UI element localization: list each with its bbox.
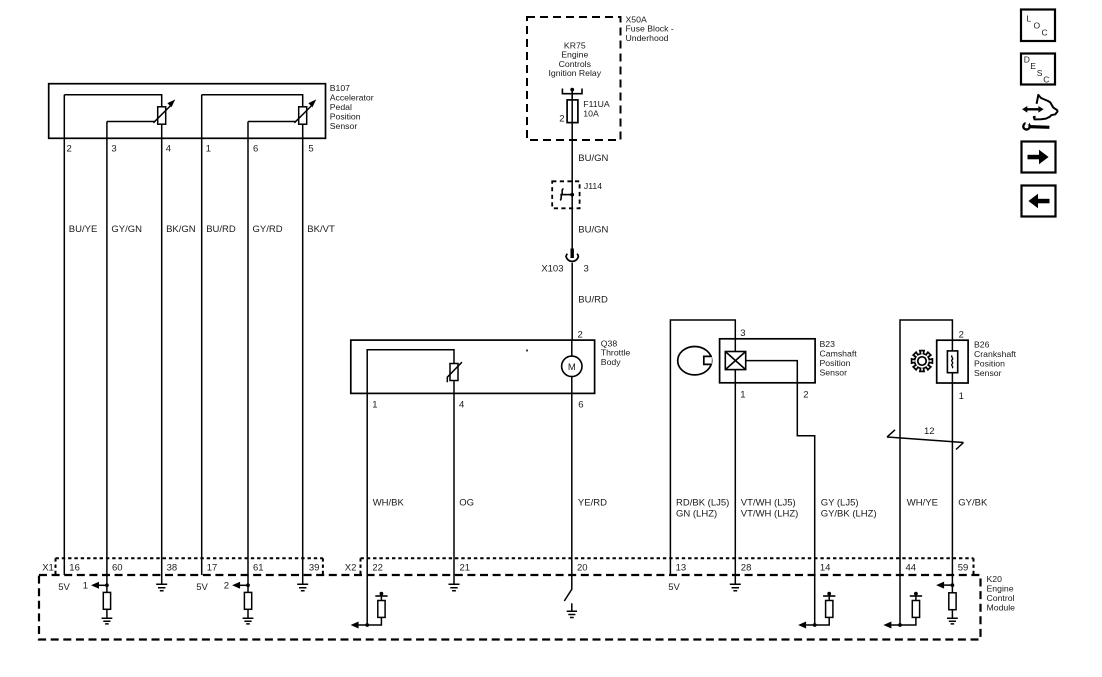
svg-text:6: 6 xyxy=(253,143,258,154)
wire X103 to Q38 pin2 xyxy=(571,263,573,340)
svg-text:GY/RD: GY/RD xyxy=(253,224,283,235)
svg-text:GY/GN: GY/GN xyxy=(111,224,142,235)
svg-text:13: 13 xyxy=(676,563,687,574)
svg-text:VT/WH (LHZ): VT/WH (LHZ) xyxy=(741,508,799,519)
svg-text:28: 28 xyxy=(741,563,752,574)
label B23 Camshaft Position Sensor xyxy=(820,339,858,378)
svg-text:D: D xyxy=(1024,55,1030,65)
wire B26 pin2 internal xyxy=(951,340,953,383)
wire B107 pot1 wiper xyxy=(107,121,155,123)
svg-text:14: 14 xyxy=(820,563,831,574)
thermistor sensor of Q38 xyxy=(450,364,458,381)
accelerator pedal position sensor B107 box xyxy=(49,84,326,139)
wire pin3 B107 to X1-60 xyxy=(106,122,108,586)
svg-text:X103: X103 xyxy=(541,264,563,275)
svg-text:O: O xyxy=(1034,21,1041,31)
svg-text:39: 39 xyxy=(309,563,320,574)
pin 21 internal: ground xyxy=(449,575,460,591)
svg-text:Pedal: Pedal xyxy=(330,102,352,112)
svg-text:B107: B107 xyxy=(330,83,350,93)
wire B23 pin2 to X2-14 with jog xyxy=(797,383,814,575)
pin numbers X1 row xyxy=(69,563,319,574)
svg-text:16: 16 xyxy=(69,563,80,574)
svg-text:Position: Position xyxy=(820,358,851,368)
svg-text:S: S xyxy=(1037,68,1043,78)
svg-text:6: 6 xyxy=(578,400,583,411)
svg-text:Module: Module xyxy=(987,602,1016,612)
camshaft sensor outer housing and wire to X2-13 xyxy=(670,320,735,575)
svg-text:GY (LJ5): GY (LJ5) xyxy=(821,497,859,508)
icon LOC button xyxy=(1021,10,1055,42)
svg-text:44: 44 xyxy=(906,563,917,574)
svg-text:21: 21 xyxy=(460,563,471,574)
inline connector X103 male terminal xyxy=(571,249,574,259)
svg-text:Sensor: Sensor xyxy=(820,368,848,378)
svg-text:L: L xyxy=(1027,14,1032,24)
svg-text:10A: 10A xyxy=(583,109,599,119)
svg-text:B23: B23 xyxy=(820,339,836,349)
camshaft position sensor B23 box xyxy=(720,339,816,383)
pin 60 internal: arrow 1, resistor, ground xyxy=(83,581,113,624)
pin 14 internal: arrow, pull-up resistor xyxy=(798,575,835,629)
svg-text:Underhood: Underhood xyxy=(626,33,669,43)
svg-text:OG: OG xyxy=(459,497,474,508)
svg-text:2: 2 xyxy=(559,114,564,125)
svg-text:4: 4 xyxy=(166,143,171,154)
wire B107 pot2 top feed xyxy=(202,95,303,107)
pin 28 internal: ground xyxy=(730,575,741,591)
svg-text:BU/RD: BU/RD xyxy=(206,224,236,235)
svg-text:M: M xyxy=(568,362,576,373)
svg-text:61: 61 xyxy=(253,563,264,574)
svg-text:2: 2 xyxy=(578,329,583,340)
icon back arrow button xyxy=(1022,186,1056,217)
wire fuse to J114 xyxy=(571,123,573,249)
pin numbers X2 row xyxy=(372,563,968,574)
svg-text:5V: 5V xyxy=(58,582,70,593)
fuse block X50A dashed box xyxy=(527,17,621,140)
svg-text:X2: X2 xyxy=(345,563,357,574)
svg-text:1: 1 xyxy=(83,581,88,592)
crankshaft sensor outer housing and wire to X2-44 xyxy=(900,320,952,575)
svg-text:Accelerator: Accelerator xyxy=(330,92,374,102)
svg-text:VT/WH (LJ5): VT/WH (LJ5) xyxy=(741,497,796,508)
svg-text:X1: X1 xyxy=(42,563,54,574)
svg-text:GY/BK: GY/BK xyxy=(958,497,988,508)
svg-text:BK/VT: BK/VT xyxy=(307,224,335,235)
label Q38 Throttle Body xyxy=(601,338,631,367)
wire color labels crankshaft group xyxy=(907,497,988,508)
svg-text:BU/RD: BU/RD xyxy=(578,295,608,306)
svg-text:C: C xyxy=(1043,75,1049,85)
potentiometer P2 of B107 xyxy=(294,100,315,124)
motor M of Q38 xyxy=(562,356,582,376)
svg-text:60: 60 xyxy=(112,563,123,574)
wire Q38 motor to box bottom xyxy=(571,340,573,393)
sensor element X-box of B23 xyxy=(725,352,745,370)
svg-text:2: 2 xyxy=(959,330,964,341)
wire pin1 B107 to X1-17 xyxy=(201,95,203,575)
wire color labels left group xyxy=(69,224,335,235)
camshaft reluctor wheel symbol xyxy=(678,347,712,375)
svg-text:BU/GN: BU/GN xyxy=(578,153,608,164)
svg-text:22: 22 xyxy=(372,563,383,574)
wire pin1 Q38 internal xyxy=(367,350,454,394)
wire color labels middle group xyxy=(373,497,607,508)
wire pin4 B107 to X1-38 xyxy=(161,124,163,575)
pin numbers B107 xyxy=(67,143,314,154)
twisted pair symbol 12 xyxy=(887,430,964,450)
label F11UA 10A xyxy=(583,99,610,118)
engine control module K20 dashed box xyxy=(39,575,981,640)
svg-text:BK/GN: BK/GN xyxy=(166,224,196,235)
svg-text:Sensor: Sensor xyxy=(330,121,358,131)
svg-text:17: 17 xyxy=(207,563,218,574)
splice J114 symbol xyxy=(560,194,572,196)
splice J114 dashed box xyxy=(552,181,579,208)
stray dot artifact xyxy=(526,349,528,351)
svg-text:J114: J114 xyxy=(584,181,602,191)
svg-text:3: 3 xyxy=(584,264,589,275)
svg-text:1: 1 xyxy=(740,390,745,401)
wire color labels camshaft group xyxy=(676,497,877,519)
svg-text:GY/BK (LHZ): GY/BK (LHZ) xyxy=(821,508,877,519)
label K20 Engine Control Module xyxy=(987,574,1016,612)
svg-text:Position: Position xyxy=(330,111,361,121)
wire pin2 B107 to X1-16 xyxy=(63,95,65,575)
icon forward arrow button xyxy=(1022,142,1056,173)
svg-text:Sensor: Sensor xyxy=(974,368,1002,378)
svg-text:E: E xyxy=(1030,61,1036,71)
svg-text:GN (LHZ): GN (LHZ) xyxy=(676,508,717,519)
pin 39 internal: ground xyxy=(297,575,308,591)
pin 38 internal: ground xyxy=(156,575,167,591)
svg-text:38: 38 xyxy=(167,563,178,574)
svg-text:2: 2 xyxy=(803,390,808,401)
svg-text:BU/GN: BU/GN xyxy=(578,224,608,235)
svg-text:2: 2 xyxy=(224,581,229,592)
wire B23 X-box to pin2 xyxy=(746,361,798,383)
svg-text:Ignition Relay: Ignition Relay xyxy=(548,68,601,78)
wire pin6 B107 to X1-61 xyxy=(247,122,249,586)
wire B107 pot2 wiper xyxy=(248,121,296,123)
pin 44 internal: arrow, pull-up resistor xyxy=(883,575,922,629)
svg-text:5: 5 xyxy=(308,143,313,154)
throttle body Q38 box xyxy=(351,340,595,393)
svg-text:Crankshaft: Crankshaft xyxy=(974,349,1017,359)
svg-text:B26: B26 xyxy=(974,340,990,350)
label X50A Fuse Block - Underhood xyxy=(626,15,674,43)
svg-text:C: C xyxy=(1042,28,1048,38)
icon DESC button xyxy=(1021,54,1055,85)
wire B107 pot1 top feed xyxy=(64,95,161,107)
label B26 Crankshaft Position Sensor xyxy=(974,340,1017,379)
svg-text:1: 1 xyxy=(959,391,964,402)
svg-text:RD/BK (LJ5): RD/BK (LJ5) xyxy=(676,497,729,508)
svg-text:Engine: Engine xyxy=(987,584,1014,594)
pin numbers Q38 xyxy=(372,400,583,411)
crankshaft position sensor B26 box xyxy=(937,340,968,383)
label KR75 Engine Controls Ignition Relay xyxy=(548,40,601,78)
svg-text:2: 2 xyxy=(67,143,72,154)
svg-text:59: 59 xyxy=(958,563,969,574)
relay KR75 output terminal xyxy=(562,89,582,100)
wire pin4 Q38 xyxy=(453,381,455,394)
pin 22 internal: arrow, pull-up resistor xyxy=(351,575,388,629)
connector X1 dotted outline xyxy=(56,558,323,574)
pin numbers B23 bottom xyxy=(740,390,808,401)
svg-text:3: 3 xyxy=(111,143,116,154)
wire Q38 pin6 to X2-20 xyxy=(571,393,573,575)
icon navigate/tools xyxy=(1022,95,1057,130)
svg-text:Position: Position xyxy=(974,359,1005,369)
potentiometer P1 of B107 xyxy=(153,100,174,124)
pin 61 internal: arrow 2, resistor, ground xyxy=(224,581,254,624)
svg-text:5V: 5V xyxy=(668,582,680,593)
wire pin5 B107 to X1-39 xyxy=(302,124,304,575)
svg-text:BU/YE: BU/YE xyxy=(69,224,98,235)
svg-text:Body: Body xyxy=(601,357,621,367)
svg-text:3: 3 xyxy=(740,328,745,339)
svg-text:20: 20 xyxy=(577,563,588,574)
svg-text:YE/RD: YE/RD xyxy=(578,497,607,508)
svg-text:4: 4 xyxy=(459,400,464,411)
svg-text:1: 1 xyxy=(206,143,211,154)
svg-text:WH/YE: WH/YE xyxy=(907,497,938,508)
wire B26 pin1 to X2-59 xyxy=(951,383,953,575)
pin 59 internal: arrow, resistor, ground xyxy=(936,575,958,624)
wire Q38 pin4 to X2-21 xyxy=(453,393,455,575)
wire Q38 pin1 to X2-22 xyxy=(366,393,368,575)
svg-text:5V: 5V xyxy=(196,582,208,593)
svg-text:WH/BK: WH/BK xyxy=(373,497,405,508)
inline connector X103 female cup xyxy=(566,254,578,262)
svg-text:1: 1 xyxy=(372,400,377,411)
fuse F11UA 10A xyxy=(567,100,578,123)
wire B23 pin3 through X-box to pin1 and X2-28 xyxy=(734,339,736,575)
svg-text:Camshaft: Camshaft xyxy=(820,349,858,359)
label B107 Accelerator Pedal Position Sensor xyxy=(330,83,374,131)
crankshaft reluctor gear symbol xyxy=(912,351,933,372)
svg-text:12: 12 xyxy=(924,426,935,437)
inductive sensor element of B26 xyxy=(947,351,957,373)
connector X2 dotted outline xyxy=(361,558,974,574)
pin 20 internal: switch contact and ground xyxy=(564,575,577,618)
